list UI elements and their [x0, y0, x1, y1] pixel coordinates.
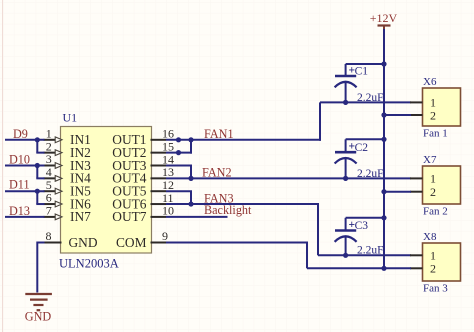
wire FAN3 bottom run to X8 pin1: [318, 254, 411, 256]
svg-text:Backlight: Backlight: [204, 203, 252, 217]
wire pin8 to ground: [37, 242, 44, 293]
junction D9: [35, 137, 40, 142]
svg-text:X6: X6: [423, 76, 437, 88]
pin 16 OUT1 (stub, number, name): [112, 127, 174, 148]
pin 1 IN1 (stub, arrow, number, name): [44, 126, 91, 147]
junction rail C2 top: [381, 137, 386, 142]
svg-text:1: 1: [430, 172, 436, 186]
wire tie OUT3-OUT4: [190, 166, 192, 179]
wire D9 to IN1: [5, 139, 45, 141]
svg-text:2.2uF: 2.2uF: [357, 245, 384, 257]
pin 7 IN7 (stub, arrow, number, name): [44, 204, 92, 225]
svg-text:7: 7: [46, 204, 52, 218]
junction FAN3: [188, 201, 193, 206]
junction rail C1 top: [381, 61, 386, 66]
wire COM to rail: [307, 267, 384, 269]
pin 9 COM (stub, number, name): [116, 229, 168, 250]
svg-text:Fan 1: Fan 1: [423, 128, 448, 140]
junction OUT1 b: [188, 137, 193, 142]
wire branch IN1-IN2: [36, 140, 44, 153]
svg-text:2: 2: [430, 185, 436, 199]
svg-text:X7: X7: [423, 154, 437, 166]
junction D11: [35, 189, 40, 194]
junction OUT1 a: [176, 137, 181, 142]
wire X8 pin2 to rail: [384, 267, 411, 269]
wire +12V rail: [383, 29, 385, 268]
junction rail X8 pin2 / COM: [381, 266, 386, 271]
svg-text:GND: GND: [69, 235, 98, 250]
junction rail X7 pin2: [381, 189, 386, 194]
svg-text:1: 1: [430, 249, 436, 263]
junction OUT2: [176, 150, 181, 155]
svg-text:2: 2: [430, 108, 436, 122]
capacitor C3 2.2uF: [335, 218, 384, 257]
wire OUT4 FAN2 run to X7 pin1: [166, 177, 411, 179]
junction C1 bottom: [343, 100, 348, 105]
svg-text:9: 9: [162, 229, 168, 243]
wire branch IN5-IN6: [36, 191, 44, 204]
svg-text:Fan 2: Fan 2: [423, 206, 448, 218]
connector X6 Fan 1: [410, 88, 461, 126]
svg-text:10: 10: [162, 204, 174, 218]
pin 14 OUT3 (stub, number, name): [112, 152, 174, 173]
svg-text:GND: GND: [25, 310, 52, 324]
pin 11 OUT6 (stub, number, name): [112, 191, 173, 212]
pin 6 IN6 (stub, arrow, number, name): [44, 191, 92, 212]
wire OUT3 stub: [166, 165, 192, 167]
pin 10 OUT7 (stub, number, name): [112, 204, 174, 225]
svg-text:D11: D11: [9, 178, 30, 192]
capacitor C2 2.2uF: [335, 139, 384, 180]
connector X8 Fan 3: [410, 243, 461, 281]
svg-text:OUT7: OUT7: [112, 209, 147, 224]
pin 2 IN2 (stub, arrow, number, name): [44, 139, 91, 160]
svg-text:IN7: IN7: [70, 209, 91, 224]
svg-text:C2: C2: [355, 142, 369, 154]
wire D13 to IN7: [5, 216, 45, 218]
svg-text:+12V: +12V: [370, 11, 398, 25]
wire tie OUT1-OUT2: [190, 140, 192, 154]
junction D10: [35, 163, 40, 168]
svg-text:2: 2: [430, 262, 436, 276]
pin 3 IN3 (stub, arrow, number, name): [44, 152, 92, 173]
svg-text:2.2uF: 2.2uF: [357, 92, 384, 104]
pin 4 IN4 (stub, arrow, number, name): [44, 165, 92, 186]
wire FAN1 top run to X6 pin1: [320, 101, 411, 103]
svg-text:C1: C1: [355, 66, 369, 78]
pin 8 GND (stub, number, name): [44, 229, 98, 250]
ground GND symbol: [25, 294, 52, 310]
wire OUT1 FAN1 run: [166, 139, 321, 141]
wire branch IN3-IN4: [36, 166, 44, 179]
wire D11 to IN5: [5, 190, 45, 192]
svg-text:ULN2003A: ULN2003A: [59, 257, 119, 271]
wire D10 to IN3: [5, 165, 45, 167]
junction rail C3 top: [381, 215, 386, 220]
svg-text:X8: X8: [423, 231, 437, 243]
wire COM run: [166, 242, 308, 244]
junction C2 bottom: [343, 176, 348, 181]
wire FAN3 dropper: [317, 204, 319, 255]
pin 13 OUT4 (stub, number, name): [112, 165, 174, 186]
wire OUT5 stub: [166, 190, 192, 192]
svg-text:U1: U1: [63, 111, 78, 125]
wire COM dropper: [306, 243, 308, 269]
pin 15 OUT2 (stub, number, name): [112, 139, 174, 160]
svg-text:8: 8: [46, 229, 52, 243]
wire X7 pin2 to rail: [384, 191, 411, 193]
junction FAN2: [188, 176, 193, 181]
junction C3 bottom: [343, 253, 348, 258]
connector X7 Fan 2: [410, 166, 461, 204]
power +12V symbol: [378, 26, 391, 31]
svg-text:2.2uF: 2.2uF: [357, 168, 384, 180]
capacitor C1 2.2uF: [335, 64, 384, 104]
junction rail X6 pin2: [381, 112, 386, 117]
IC U1 ULN2003A body: [61, 127, 152, 254]
pin 12 OUT5 (stub, number, name): [112, 178, 174, 199]
wire OUT7 Backlight stub: [166, 216, 228, 218]
wire tie OUT5-OUT6: [190, 191, 192, 204]
svg-text:Fan 3: Fan 3: [423, 283, 448, 295]
wire X6 pin2 to rail: [384, 114, 411, 116]
svg-text:C3: C3: [355, 220, 369, 232]
pin 5 IN5 (stub, arrow, number, name): [44, 178, 92, 199]
wire OUT2 stub: [166, 152, 192, 154]
wire OUT6 FAN3 run: [166, 203, 319, 205]
wire FAN1 riser: [319, 102, 321, 140]
svg-text:COM: COM: [116, 235, 147, 250]
